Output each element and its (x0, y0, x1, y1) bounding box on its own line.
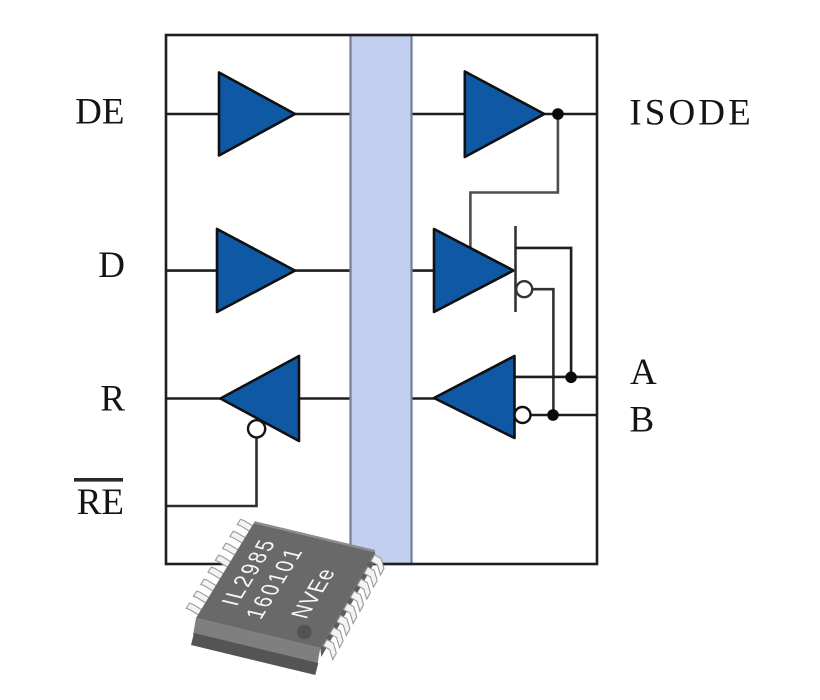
wire RE line (166, 438, 257, 507)
top edge highlight (254, 522, 374, 551)
isolation barrier strip (351, 35, 412, 564)
chip right side face (320, 551, 376, 657)
IC package IL2985 (186, 519, 384, 675)
pin1 dimple (297, 625, 312, 640)
chip bottom-left bevel face (193, 618, 320, 665)
bubble on B input (515, 407, 531, 423)
svg-text:D: D (98, 245, 125, 286)
buffer ISODE (right) (465, 72, 545, 158)
pins right side (323, 555, 384, 660)
wire R line (166, 397, 440, 400)
buffer DE (left driver) (219, 73, 295, 156)
buffer receiver right (A/B) (434, 356, 515, 438)
buffer driver right (to A/B) (434, 229, 514, 312)
bubble on R receiver enable (248, 420, 265, 437)
svg-text:A: A (630, 352, 657, 393)
junction dot A (565, 372, 577, 384)
junction dot ISODE (552, 108, 564, 120)
wire A line (515, 376, 598, 379)
bubble driver inverted output (516, 281, 532, 297)
svg-text:DE: DE (75, 92, 124, 133)
svg-text:RE: RE (77, 482, 124, 523)
wire bar to A (516, 248, 572, 377)
wire D line (166, 269, 500, 272)
svg-text:ISODE: ISODE (629, 93, 753, 134)
chip top face (196, 522, 375, 648)
tri-state bar (514, 226, 517, 312)
buffer R (left receiver) (220, 356, 299, 441)
buffer D (left driver) (217, 229, 295, 312)
chip bottom dark rim (191, 633, 318, 675)
svg-text:B: B (630, 400, 655, 441)
wire B line (530, 414, 597, 417)
svg-text:R: R (100, 379, 125, 420)
wire bubble to B (532, 289, 553, 415)
pins left side (186, 519, 254, 615)
wire ISODE feedback (470, 114, 558, 250)
wire ISODE line (530, 113, 597, 116)
outer block box (166, 35, 597, 564)
wire DE line (166, 113, 466, 116)
overline of RE (74, 478, 123, 482)
junction dot B (547, 409, 559, 421)
chip text (216, 536, 342, 622)
